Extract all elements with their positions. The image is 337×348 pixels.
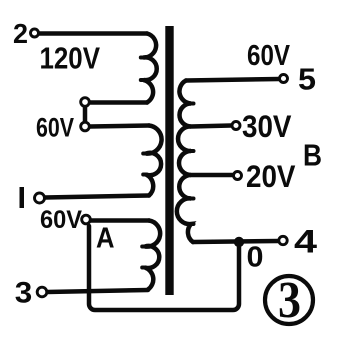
wire secondary bottom to node 0 and terminal 4: [193, 241, 278, 242]
terminal 5 circle: [280, 75, 288, 83]
svg-text:A: A: [96, 223, 115, 255]
secondary winding S (with taps at cusps): [177, 81, 193, 243]
wire terminal 2 to primary winding P1: [39, 31, 147, 36]
label terminal 1: [20, 187, 25, 208]
primary winding A (60V winding): [145, 221, 160, 290]
svg-text:B: B: [303, 138, 322, 173]
cusp ticks secondary: [191, 104, 194, 225]
terminal 3 circle: [37, 287, 47, 297]
terminal 1 circle: [35, 193, 45, 203]
wire P1 bottom to upper tap circle: [90, 100, 147, 105]
core: [165, 26, 173, 295]
svg-text:5: 5: [298, 62, 316, 97]
svg-text:3: 3: [278, 272, 301, 329]
wire 20V tap: [191, 173, 233, 178]
figure number circle 3: [265, 276, 313, 324]
terminal 4 circle: [279, 236, 287, 244]
tap lower circle 60V: [81, 122, 90, 131]
wire 60V circle to winding A: [91, 218, 149, 223]
svg-text:0: 0: [247, 242, 264, 274]
primary winding P2 (60V section): [146, 126, 162, 196]
wire tap connector vertical: [83, 106, 88, 122]
svg-text:60V: 60V: [36, 113, 74, 143]
wire A-top circle down, bottom bus, riser to node 0: [89, 226, 239, 310]
tap upper circle: [81, 98, 90, 107]
svg-text:120V: 120V: [40, 41, 101, 76]
cusp ticks primary P1: [141, 58, 144, 81]
wire terminal 3 to winding A bottom: [47, 290, 148, 292]
svg-text:60V: 60V: [247, 40, 291, 72]
wire P2 bottom to terminal 1: [45, 196, 149, 198]
svg-text:3: 3: [15, 277, 33, 310]
wire secondary top to terminal 5: [186, 79, 279, 81]
tap 20V circle: [234, 172, 242, 180]
primary winding P1 (120V section): [144, 34, 157, 103]
svg-text:2: 2: [13, 18, 28, 49]
svg-text:20V: 20V: [246, 158, 296, 194]
wire lower tap circle to primary winding P2: [90, 126, 149, 127]
cusp ticks primary P2: [143, 154, 146, 175]
svg-text:4: 4: [294, 224, 317, 260]
wire 30V tap: [191, 126, 231, 127]
svg-text:60V: 60V: [40, 206, 82, 234]
svg-text:30V: 30V: [242, 108, 292, 144]
cusp ticks winding A: [142, 247, 145, 268]
winding A top circle 60V: [82, 215, 91, 224]
node 0 junction dot: [234, 237, 244, 247]
terminal 2 circle: [31, 29, 39, 37]
tap 30V circle: [232, 122, 240, 130]
